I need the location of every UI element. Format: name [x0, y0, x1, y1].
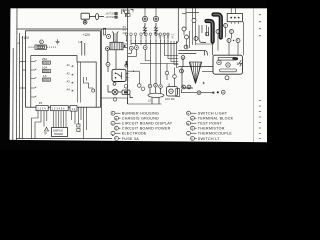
- wire: [99, 15, 104, 17]
- svg-text:CIRCUIT BOARD DISPLAY: CIRCUIT BOARD DISPLAY: [122, 122, 173, 126]
- bottom frame line: [16, 138, 112, 140]
- thick hose trace 2 outer: [214, 15, 221, 38]
- terminal circled-dot left of funnel: [180, 69, 184, 73]
- svg-text:10A: 10A: [42, 66, 47, 70]
- svg-text:+12V: +12V: [164, 33, 166, 39]
- terminal circles row mid: [129, 46, 147, 51]
- center divider wire: [127, 8, 129, 104]
- circled sensor S2: [153, 16, 158, 21]
- svg-text:P3: P3: [39, 101, 43, 105]
- lamp symbol: [108, 85, 118, 95]
- circuit board inner outline: [31, 56, 96, 108]
- right thin page line: [252, 8, 254, 142]
- svg-text:S: S: [191, 126, 193, 130]
- svg-text:A1: A1: [67, 63, 71, 67]
- breaker row 2: 10A: [31, 66, 51, 73]
- svg-text:→PS: →PS: [121, 27, 127, 29]
- burner assembly box: [213, 55, 242, 74]
- small component pill right of lamp: [118, 90, 133, 98]
- thermistor body 1: [144, 23, 147, 36]
- thick hose trace 1 core: [207, 21, 213, 42]
- terminals above motor: [165, 64, 176, 81]
- bundle corner wire: [131, 8, 178, 43]
- paper background: [0, 0, 267, 150]
- svg-text:A4: A4: [67, 88, 71, 92]
- svg-text:25A: 25A: [42, 57, 47, 61]
- top divider connector cluster: [125, 10, 129, 13]
- terminal circle left of base: [106, 47, 110, 51]
- legend item F fuse 3a: [115, 136, 140, 140]
- wires from strip 123456 into display board: [54, 111, 67, 128]
- svg-text:ELECTRODE: ELECTRODE: [122, 132, 147, 136]
- control box outline: [26, 31, 101, 107]
- legend item D circuit board power: [115, 126, 171, 130]
- harness elbow wires: [186, 13, 209, 43]
- svg-text:A3: A3: [67, 80, 71, 84]
- plug pads: [77, 124, 80, 132]
- harness plug boxes: [115, 9, 134, 19]
- igniter circles: [217, 60, 230, 67]
- wires below strip 12 and box bottom: [72, 107, 87, 138]
- terminal strip P3 1234: [36, 106, 48, 111]
- svg-text:A2: A2: [67, 72, 71, 76]
- tiny harness labels: [104, 13, 117, 20]
- pin bus wires: [77, 62, 79, 103]
- svg-text:R: R: [187, 122, 189, 126]
- legend item R test point: [187, 121, 223, 126]
- svg-text:→ANT.SW: →ANT.SW: [104, 13, 117, 16]
- top black scan bar: [0, 0, 267, 8]
- descending harness wires: [131, 41, 161, 84]
- board input stub row 5: [31, 96, 37, 97]
- wires from base block to divider: [123, 44, 128, 47]
- small block at panel edge: [176, 89, 180, 97]
- breaker row 1: 25A: [31, 57, 51, 64]
- TP test point symbol: [44, 127, 49, 135]
- indicator circle under switch: [83, 20, 87, 24]
- relay terminals: [113, 64, 128, 85]
- svg-text:P: P: [191, 117, 193, 121]
- frame horizontal line y29: [16, 28, 128, 30]
- svg-text:+12V: +12V: [159, 33, 161, 39]
- legend item P terminal block: [191, 116, 234, 121]
- nested elbow wires: [128, 41, 179, 104]
- connector block top right: [227, 8, 242, 21]
- transformer oval: [148, 87, 164, 104]
- stub wires top divider: [121, 9, 123, 14]
- terminal strip 123456: [51, 106, 69, 111]
- relay box: [112, 69, 129, 81]
- thermocouple wire bottom right: [181, 89, 225, 95]
- circled sensor S1: [142, 16, 147, 21]
- terminal circle mid: [106, 62, 110, 66]
- outer frame left border line: [12, 48, 14, 140]
- svg-text:12: 12: [72, 107, 77, 111]
- dark mark top right: [233, 58, 239, 60]
- svg-text:N: N: [187, 111, 189, 115]
- svg-text:SWITCH LIGHT: SWITCH LIGHT: [198, 112, 228, 116]
- svg-text:THERMOCOUPLE: THERMOCOUPLE: [198, 132, 232, 136]
- display board box: [52, 128, 68, 137]
- svg-text:SWITCH LT: SWITCH LT: [198, 137, 220, 141]
- svg-text:→ANT.SW: →ANT.SW: [104, 16, 117, 19]
- svg-text:CHASSIS GROUND: CHASSIS GROUND: [122, 117, 159, 121]
- narrow relay rect: [103, 28, 105, 35]
- legend item N switch light: [187, 111, 228, 115]
- legend item S thermistor: [191, 126, 225, 130]
- single cross wire: [140, 63, 178, 65]
- wire into fuse: [29, 46, 36, 48]
- legend item C circuit board display: [111, 121, 173, 126]
- circled letter below burner box: [225, 76, 229, 80]
- lower-left wire corner block: [128, 71, 145, 91]
- svg-text:→PS: →PS: [121, 30, 127, 32]
- supply wire right pair: [82, 41, 85, 56]
- middle vertical wires: [101, 29, 116, 139]
- svg-text:TERMINAL BLOCK: TERMINAL BLOCK: [198, 117, 234, 121]
- svg-text:B: B: [115, 117, 117, 121]
- ground symbol right of fuse: [47, 39, 60, 47]
- svg-text:BURNER HOUSING: BURNER HOUSING: [122, 112, 159, 116]
- left wires turning into box rows: [20, 62, 26, 89]
- svg-text:GND: GND: [168, 33, 170, 38]
- svg-text:D: D: [230, 31, 232, 34]
- circled letter above pill: [124, 85, 128, 89]
- page edge tick marks right: [259, 14, 261, 139]
- legend item B chassis ground: [115, 116, 159, 121]
- breaker row 3: 1A: [31, 74, 51, 81]
- supply wires left: [19, 33, 22, 139]
- electrode terminals: [182, 85, 191, 89]
- rotated wire labels at bundle: [159, 33, 175, 39]
- heater element vertical: [112, 32, 118, 43]
- junction circles mid right: [181, 37, 198, 60]
- svg-text:12V DC: 12V DC: [165, 97, 175, 101]
- inner frame left border line: [15, 8, 18, 140]
- motor box: [167, 79, 178, 97]
- svg-text:D: D: [115, 126, 117, 130]
- terminal circle top: [107, 35, 111, 39]
- wire: [89, 15, 95, 17]
- row of circled terminal letters: [125, 33, 169, 41]
- bottom black scan bar: [0, 140, 267, 150]
- nested corner wires: [182, 14, 244, 56]
- right-side board pins: [67, 62, 81, 103]
- terminal circles above transformer: [148, 84, 162, 89]
- svg-text:THERMISTOR: THERMISTOR: [198, 127, 225, 131]
- svg-text:TP: TP: [44, 133, 47, 136]
- terminal strip 12: [70, 106, 77, 112]
- legend item U switch lt: [191, 136, 221, 140]
- svg-text:BOARD: BOARD: [54, 133, 63, 136]
- wires bottom middle: [102, 98, 128, 104]
- electrode funnel symbol: [189, 62, 205, 84]
- svg-text:DISPLAY: DISPLAY: [53, 130, 64, 133]
- svg-text:FUSE 3A: FUSE 3A: [122, 137, 139, 141]
- switch body box: [81, 13, 89, 19]
- dark pin bar: [126, 61, 128, 66]
- legend item E electrode: [111, 131, 147, 137]
- svg-text:A: A: [112, 111, 114, 115]
- svg-text:+12V: +12V: [83, 33, 91, 37]
- svg-text:C: C: [112, 122, 114, 126]
- thin feed wires from top: [186, 8, 196, 45]
- thick hose trace 2 core: [214, 15, 221, 38]
- tiny connector text block: [121, 27, 127, 35]
- fuse block: [29, 45, 47, 49]
- svg-text:ACC: ACC: [172, 33, 175, 38]
- svg-text:U: U: [191, 137, 193, 141]
- legend item A burner housing: [111, 111, 159, 115]
- svg-text:C: C: [217, 31, 219, 34]
- svg-text:CIRCUIT BOARD POWER: CIRCUIT BOARD POWER: [122, 127, 171, 131]
- thermistor body 2: [155, 23, 158, 36]
- svg-text:123456: 123456: [52, 107, 66, 111]
- svg-text:E: E: [112, 133, 114, 137]
- heater base block: [110, 42, 126, 50]
- thermistor top feed wires: [145, 8, 156, 16]
- staircase wire right side: [84, 77, 95, 92]
- board input stub row 4: [31, 87, 37, 88]
- svg-text:TEST POINT: TEST POINT: [198, 122, 223, 126]
- svg-text:1A: 1A: [43, 74, 47, 78]
- wires below strip P3: [32, 111, 47, 139]
- svg-text:1234: 1234: [37, 107, 46, 111]
- right panel wires: [178, 43, 214, 88]
- junction circles under harness: [182, 19, 240, 43]
- legend item T thermocouple: [187, 131, 233, 137]
- circled letter under lamp: [113, 98, 117, 102]
- left black scan strip: [0, 0, 11, 150]
- circled letter above fuse: [40, 40, 44, 44]
- thick hose trace 1 outer: [207, 21, 213, 42]
- inline capacitor cylinder: [96, 14, 99, 20]
